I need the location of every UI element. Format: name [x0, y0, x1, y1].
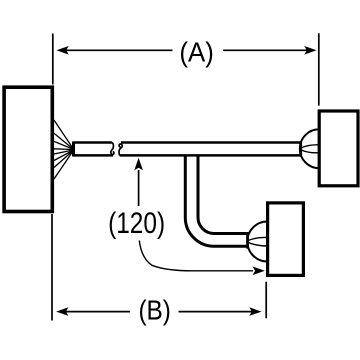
label (120): [108, 207, 165, 240]
balloon fan at bottom connector: [247, 222, 267, 262]
bottom connector P3: [268, 203, 304, 276]
dimension line (A): [57, 46, 317, 55]
label (A): [179, 37, 214, 68]
cable crimp bar: [72, 142, 75, 157]
right connector P2: [319, 111, 358, 186]
cable break right curl: [119, 144, 122, 156]
cable crimp bar at bottom connector: [246, 232, 249, 248]
balloon fan at right connector: [300, 129, 320, 168]
arrow (120) up to cable: [134, 158, 143, 206]
label (B): [138, 295, 171, 326]
svg-text:(A): (A): [179, 37, 214, 68]
left connector P1: [4, 87, 52, 211]
main cable left segment: [73, 143, 113, 156]
branch cable tube: [185, 156, 248, 247]
extension line right (dim A): [318, 33, 320, 105]
leader (120) to bottom connector: [139, 241, 264, 276]
svg-text:(B): (B): [138, 295, 171, 326]
wire fan at left connector: [54, 120, 73, 179]
svg-text:(120): (120): [108, 207, 165, 240]
cable break left curl: [111, 142, 114, 154]
cable crimp bar at right connector: [299, 141, 302, 156]
main cable right segment: [120, 143, 301, 156]
extension line bottom (dim B): [265, 282, 267, 319]
dimension line (B): [56, 307, 261, 316]
extension line left (dim A/B): [51, 34, 54, 321]
